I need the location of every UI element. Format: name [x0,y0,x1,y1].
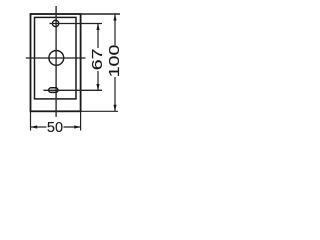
svg-text:50: 50 [47,120,63,136]
svg-text:100: 100 [106,45,123,78]
svg-text:67: 67 [89,49,106,71]
